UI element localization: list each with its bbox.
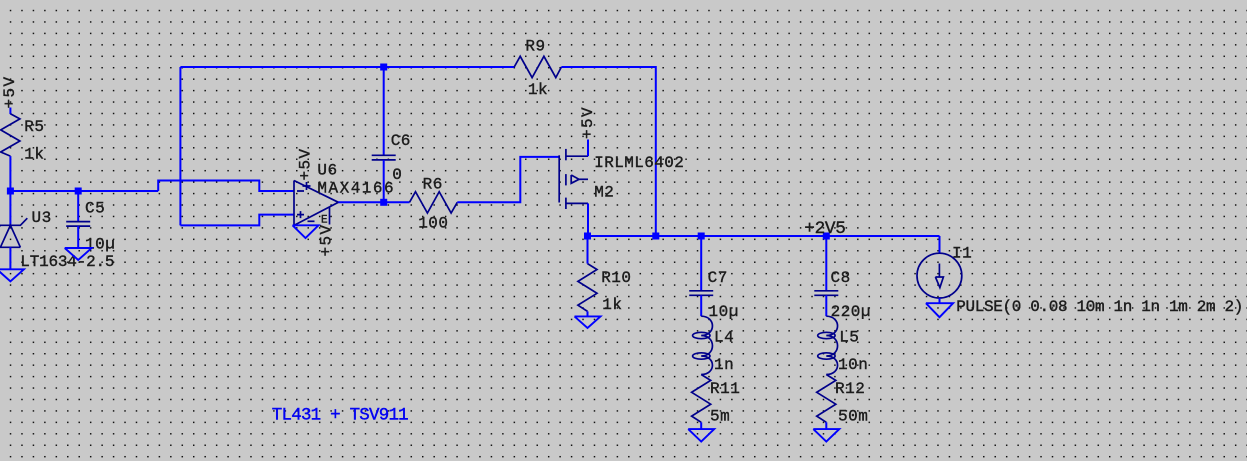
ground (C5) xyxy=(65,248,92,260)
ground (op-amp V-) xyxy=(293,225,319,238)
svg-text:C8: C8 xyxy=(831,269,851,287)
node junction xyxy=(584,233,591,240)
svg-text:10n: 10n xyxy=(838,356,868,374)
node junction xyxy=(698,233,705,240)
op-amp U6 xyxy=(294,162,395,227)
wire (to op-amp non-inverting input) xyxy=(180,215,294,226)
node junction xyxy=(7,188,14,195)
svg-text:M2: M2 xyxy=(594,184,614,202)
node junction xyxy=(380,64,387,71)
svg-text:U3: U3 xyxy=(32,209,52,227)
svg-text:PULSE(0 0.08 10m 1n 1n 1m 2m 2: PULSE(0 0.08 10m 1n 1n 1m 2m 2) xyxy=(956,298,1243,316)
wire (to I1) xyxy=(939,236,941,253)
svg-text:R9: R9 xyxy=(525,38,545,56)
node junction xyxy=(75,188,82,195)
wire (main node horizontal) xyxy=(10,190,158,192)
svg-text:+5V: +5V xyxy=(579,106,597,139)
node junction xyxy=(380,199,387,206)
node junction xyxy=(823,233,830,240)
svg-text:C6: C6 xyxy=(391,132,411,150)
resistor R6 xyxy=(410,176,458,233)
svg-text:1k: 1k xyxy=(602,296,622,314)
capacitor C6 xyxy=(372,132,411,184)
wire (C8 top lead) xyxy=(825,236,827,291)
svg-text:+5V: +5V xyxy=(1,75,19,108)
svg-text:5m: 5m xyxy=(710,408,730,426)
svg-text:+5V: +5V xyxy=(296,147,314,180)
ground (U3) xyxy=(0,269,24,281)
resistor R5 xyxy=(1,114,45,164)
svg-text:TL431 + TSV911: TL431 + TSV911 xyxy=(272,406,408,426)
svg-text:C5: C5 xyxy=(85,200,105,218)
power flag +5V (op-amp V+) xyxy=(296,147,314,180)
wire xyxy=(9,156,11,191)
wire (jog to op-amp inverting input) xyxy=(158,181,294,192)
svg-text:100: 100 xyxy=(418,214,448,232)
transistor M2 (PMOS IRLML6402) xyxy=(559,149,684,209)
wire xyxy=(77,226,79,248)
svg-text:1n: 1n xyxy=(714,356,734,374)
wire (top feedback horizontal) xyxy=(180,66,514,68)
wire (output node horizontal) xyxy=(588,235,940,237)
svg-text:1k: 1k xyxy=(24,146,44,164)
resistor R12 xyxy=(817,375,869,426)
power flag +5V (M2 source) xyxy=(579,106,597,139)
capacitor C8 xyxy=(814,269,871,321)
svg-text:R11: R11 xyxy=(710,380,740,398)
wire xyxy=(9,247,11,269)
wire (M2 source to +5V) xyxy=(587,140,589,157)
svg-text:R6: R6 xyxy=(423,176,443,194)
svg-text:I1: I1 xyxy=(952,245,972,263)
svg-text:1k: 1k xyxy=(528,81,548,99)
svg-text:L4: L4 xyxy=(714,329,734,347)
wire xyxy=(825,422,827,429)
svg-text:+2V5: +2V5 xyxy=(804,219,845,239)
ground (R10) xyxy=(575,316,601,328)
wire (feedback vertical) xyxy=(179,67,181,225)
wire xyxy=(9,191,11,225)
power flag +5V (op-amp E pin) xyxy=(318,223,336,256)
svg-text:LT1634-2.5: LT1634-2.5 xyxy=(20,253,114,271)
svg-text:IRLML6402: IRLML6402 xyxy=(594,154,684,172)
svg-text:L5: L5 xyxy=(839,329,859,347)
wire (R6 to gate) xyxy=(457,157,559,202)
wire xyxy=(700,295,702,316)
capacitor C5 xyxy=(66,200,115,254)
svg-text:+5V: +5V xyxy=(318,223,336,256)
svg-text:10µ: 10µ xyxy=(709,303,739,321)
current source I1 xyxy=(917,245,1243,316)
ground (R12) xyxy=(813,429,839,441)
inductor L4 xyxy=(693,316,735,374)
wire (M2 drain) xyxy=(587,203,589,236)
ground (I1) xyxy=(926,303,953,317)
wire xyxy=(561,67,655,236)
wire xyxy=(939,298,941,303)
wire xyxy=(825,295,827,316)
capacitor C7 xyxy=(689,269,739,321)
wire xyxy=(9,108,11,115)
wire xyxy=(700,422,702,429)
zener diode U3 xyxy=(0,209,114,271)
svg-text:MAX4166: MAX4166 xyxy=(317,180,395,198)
resistor R10 xyxy=(578,264,632,315)
wire xyxy=(587,311,589,316)
svg-text:R12: R12 xyxy=(835,380,865,398)
resistor R11 xyxy=(692,375,741,426)
wire (C6 bottom lead) xyxy=(383,160,385,202)
svg-text:R5: R5 xyxy=(24,118,44,136)
inductor L5 xyxy=(818,316,869,374)
svg-text:220µ: 220µ xyxy=(831,303,871,321)
svg-text:R10: R10 xyxy=(601,269,631,287)
power flag +5V (left rail) xyxy=(1,75,19,108)
wire xyxy=(77,191,79,221)
wire (C7 top lead) xyxy=(700,236,702,291)
svg-text:50m: 50m xyxy=(838,408,868,426)
resistor R9 xyxy=(514,38,561,99)
svg-text:C7: C7 xyxy=(708,269,728,287)
wire (R10 top) xyxy=(587,236,589,264)
wire (C6 top lead) xyxy=(383,67,385,155)
ground (R11) xyxy=(688,429,714,441)
svg-text:U6: U6 xyxy=(317,162,337,180)
node junction xyxy=(652,233,659,240)
wire (op-amp output) xyxy=(338,201,409,203)
